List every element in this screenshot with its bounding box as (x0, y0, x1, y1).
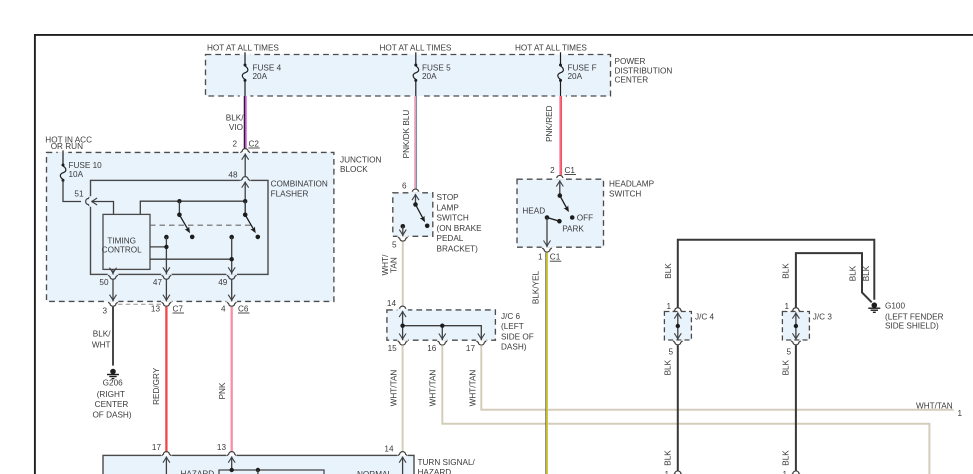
junction connector J/C 4 (664, 302, 714, 356)
svg-text:PARK: PARK (562, 225, 584, 234)
arrow out pin 49 (228, 267, 235, 273)
wire 50 to JB pin 3 (112, 279, 114, 301)
wire BLK J/C3 down (795, 345, 797, 471)
svg-text:2: 2 (232, 139, 237, 148)
connector JB pin 13 C7 arc (162, 302, 172, 306)
svg-text:C7: C7 (173, 304, 184, 313)
label HEADLAMP SWITCH (609, 180, 655, 199)
wire WHT/TAN pin17 right to edge (481, 345, 953, 409)
svg-text:HOT AT ALL TIMES: HOT AT ALL TIMES (207, 44, 279, 53)
edge gaps JB (58, 151, 69, 152)
svg-text:3: 3 (102, 307, 107, 316)
svg-text:BRACKET): BRACKET) (437, 245, 479, 254)
wire contact to pin 5 (402, 226, 404, 236)
svg-text:BLK: BLK (781, 359, 790, 375)
svg-text:4: 4 (221, 304, 226, 313)
wire BLK J/C4 down (677, 345, 679, 471)
svg-text:VIO: VIO (229, 123, 243, 132)
wire 47 to JB pin 13 (165, 279, 167, 301)
svg-text:(ON BRAKE: (ON BRAKE (437, 224, 483, 233)
wire fuse 5 to box edge (415, 80, 417, 96)
wire fuse10 feed stub (62, 150, 64, 165)
svg-text:WHT/TAN: WHT/TAN (429, 370, 438, 407)
wire BLK ground bus 2 (796, 253, 872, 309)
connector C2 arc (240, 149, 250, 153)
wire timing control to switch feed (140, 201, 245, 214)
fuse FUSE 5 20A (413, 63, 451, 82)
label POWER DISTRIBUTION CENTER (615, 57, 673, 85)
connector 50 arc (108, 275, 118, 279)
node junction dot J/C6 a (400, 324, 404, 328)
wire PNK pin4 C6 to turn signal pin 13 (231, 307, 233, 452)
svg-text:BLK: BLK (664, 450, 673, 466)
svg-text:HAZARD: HAZARD (181, 470, 215, 474)
arrow out pin 50 (110, 268, 117, 274)
svg-text:C2: C2 (249, 139, 260, 148)
stop lamp switch box (393, 193, 433, 237)
label STOP LAMP SWITCH (ON BRAKE PEDAL BRACKET) (437, 193, 483, 254)
svg-text:50: 50 (99, 278, 109, 287)
node contact 47 (164, 235, 169, 240)
svg-text:17: 17 (466, 344, 476, 353)
connector pin 15 arc (398, 341, 408, 345)
wire pin48 down to switch feed (244, 182, 246, 215)
label BLK/WHT (92, 330, 111, 350)
svg-text:BLK/: BLK/ (226, 114, 244, 123)
junction connector J/C 3 (782, 302, 832, 356)
node junction dot left switch feed (177, 199, 181, 203)
connector pin 5 arc (398, 237, 408, 241)
svg-text:1: 1 (664, 470, 669, 474)
node junction dot right switch feed (243, 199, 247, 203)
svg-text:BLK/: BLK/ (93, 330, 111, 339)
connector boundary dashed line C7 (118, 303, 161, 305)
svg-text:OF DASH): OF DASH) (92, 410, 131, 419)
ground G100 (868, 302, 880, 312)
svg-text:WHT/TAN: WHT/TAN (469, 370, 478, 407)
svg-text:10A: 10A (69, 170, 84, 179)
svg-text:PNK/RED: PNK/RED (545, 105, 554, 141)
svg-text:RED/GRY: RED/GRY (152, 367, 161, 405)
edge gaps stop lamp (410, 192, 421, 193)
wire BLK/VIO fuse4 to junction block C2 (244, 96, 245, 149)
edge gaps J/C6 (397, 309, 408, 310)
svg-text:HAZARD: HAZARD (418, 468, 452, 474)
wire PNK/DK BLU fuse 5 to stop lamp switch (415, 96, 416, 189)
svg-text:48: 48 (228, 171, 238, 180)
label 4 C6 (221, 304, 250, 313)
pin 1 C1 labels (538, 253, 561, 262)
switch S2 (right) (243, 201, 260, 239)
svg-text:G206: G206 (103, 378, 123, 387)
wire contact 47 to flasher bottom (165, 237, 167, 274)
wire WHT/TAN pin15 to turn signal pin 14 (402, 345, 404, 452)
turn signal / hazard switch box (103, 455, 414, 474)
svg-text:C6: C6 (238, 304, 249, 313)
connector 49 arc (227, 275, 237, 279)
wire BLK ground bus top (678, 240, 875, 309)
label G206 (RIGHT CENTER OF DASH) (92, 378, 131, 419)
label J/C 6 (LEFT SIDE OF DASH) (501, 312, 534, 352)
edge gaps PDC (240, 53, 251, 54)
wire fuse 4 to box edge (244, 80, 246, 96)
wire WHT/TAN pin16 right to bottom right (442, 345, 929, 474)
arrow out pin 47 (163, 267, 170, 273)
wire BLK/WHT to G206 (112, 307, 114, 366)
arrow into pin 14 (399, 312, 406, 318)
svg-text:CENTER: CENTER (95, 400, 129, 409)
label BLK/VIO (226, 114, 244, 133)
connector pin 1 C1 arc (542, 248, 552, 252)
svg-text:47: 47 (153, 278, 163, 287)
wire C2 to flasher pin 48 (244, 154, 246, 176)
arrow into pin 48 (242, 182, 249, 188)
timing control box (103, 214, 150, 269)
edge gaps headlamp (555, 178, 566, 179)
svg-text:STOP: STOP (437, 193, 460, 202)
svg-text:5: 5 (392, 241, 397, 250)
wire 49 to JB pin 4 (231, 279, 233, 301)
connector bottom pin 1 arc (cropped) (791, 471, 801, 474)
pin 14 (384, 444, 407, 474)
wire WHT/TAN stop lamp to J/C 6 pin 14 (402, 242, 404, 306)
arrow into pin 6 (412, 195, 419, 201)
svg-text:15: 15 (388, 344, 398, 353)
svg-text:HOT AT ALL TIMES: HOT AT ALL TIMES (515, 44, 587, 53)
label G100 (LEFT FENDER SIDE SHIELD) (885, 301, 944, 330)
svg-text:17: 17 (152, 443, 162, 452)
svg-text:BLK: BLK (663, 359, 672, 375)
svg-text:6: 6 (402, 181, 407, 190)
switch arm headlamp pole1 (558, 181, 575, 220)
headlamp switch box (517, 179, 604, 247)
svg-text:1: 1 (782, 470, 787, 474)
svg-text:BLK: BLK (782, 450, 791, 466)
wire from dot b down (257, 470, 259, 474)
svg-text:J/C 4: J/C 4 (695, 313, 715, 322)
svg-text:49: 49 (218, 278, 228, 287)
svg-text:WHT/TAN: WHT/TAN (389, 370, 398, 407)
node junction dot 47 (164, 245, 168, 249)
svg-text:SIDE OF: SIDE OF (501, 332, 534, 341)
svg-text:(LEFT: (LEFT (501, 322, 524, 331)
svg-text:BLOCK: BLOCK (340, 165, 368, 174)
svg-text:1: 1 (958, 409, 963, 418)
combination flasher box (91, 180, 269, 274)
wire PNK/RED fuse F to headlamp switch (560, 96, 561, 175)
label COMBINATION FLASHER (271, 179, 328, 198)
switch arm stop lamp (413, 194, 429, 228)
wire timing control to 49 wire (150, 258, 232, 260)
svg-text:16: 16 (427, 344, 437, 353)
wire fuse10 to pin 51 (63, 180, 81, 201)
svg-text:5: 5 (668, 348, 673, 357)
svg-text:POWER: POWER (615, 57, 646, 66)
wire timing control to 47 wire (150, 246, 166, 248)
switch pole2 HEAD contact to PARK (545, 215, 562, 223)
edge gaps turn box (161, 454, 172, 455)
svg-text:14: 14 (384, 444, 394, 453)
junction block box (47, 152, 334, 301)
wires inside J/C6 (403, 311, 482, 340)
connector pin 6 arc (411, 189, 421, 193)
label TIMING CONTROL (102, 236, 142, 254)
wire fuse F feed stub (560, 52, 562, 65)
svg-text:J/C 6: J/C 6 (501, 312, 521, 321)
svg-text:DASH): DASH) (501, 343, 527, 352)
svg-text:20A: 20A (253, 72, 268, 81)
svg-text:1: 1 (666, 302, 671, 311)
svg-text:C1: C1 (550, 253, 561, 262)
pin 2 C1 labels (550, 166, 576, 175)
connector pin 2 C1 arc (555, 175, 565, 179)
connector pin 17 arc (477, 341, 487, 345)
svg-text:OFF: OFF (577, 213, 593, 222)
wire timing control pin 50 (112, 269, 114, 274)
wire pin51 to timing control (91, 202, 113, 215)
power distribution center box (206, 55, 611, 97)
svg-text:OR RUN: OR RUN (51, 142, 83, 151)
wire RED/GRY pin13 C7 to turn signal pin 17 (165, 307, 167, 452)
svg-text:COMBINATION: COMBINATION (271, 179, 328, 188)
svg-text:PNK/DK BLU: PNK/DK BLU (402, 110, 411, 159)
labels 15 16 17 (388, 344, 476, 353)
fuse FUSE 10 10A (60, 161, 102, 182)
wire fuse 4 feed stub (244, 52, 246, 65)
connector J/C6 pin 14 arc (398, 306, 408, 310)
svg-text:NORMAL: NORMAL (357, 470, 392, 474)
svg-text:HEAD: HEAD (522, 207, 545, 216)
label TURN SIGNAL/ HAZARD (418, 458, 476, 474)
node junction dot 49 (230, 257, 234, 261)
svg-text:BLK/YEL: BLK/YEL (531, 270, 540, 304)
wire fuse F to box edge (560, 80, 562, 96)
mechanical linkage dashed line (150, 224, 251, 226)
pin 2 C2 junction block (232, 139, 259, 148)
svg-text:C1: C1 (565, 166, 576, 175)
svg-text:G100: G100 (885, 301, 905, 310)
svg-text:BLK: BLK (664, 263, 673, 279)
svg-text:HEADLAMP: HEADLAMP (609, 180, 655, 189)
arrow into pin 51 (92, 198, 98, 205)
svg-text:(RIGHT: (RIGHT (97, 390, 125, 399)
label JUNCTION BLOCK (340, 155, 381, 174)
switch S1 (left) (177, 201, 194, 239)
label WHT/TAN (two lines) (381, 254, 398, 276)
svg-text:TURN SIGNAL/: TURN SIGNAL/ (418, 458, 476, 467)
edge gaps flasher (240, 179, 251, 180)
svg-text:1: 1 (538, 253, 543, 262)
svg-text:20A: 20A (422, 72, 437, 81)
svg-text:1: 1 (784, 302, 789, 311)
node junction dot J/C6 b (440, 324, 444, 328)
label HOT IN ACC OR RUN (45, 135, 92, 151)
svg-text:CENTER: CENTER (615, 76, 649, 85)
fuse FUSE 4 20A (242, 63, 281, 82)
connector 47 arc (162, 275, 172, 279)
arrow into pin 2 C1 (556, 181, 563, 187)
connector JB pin 3 arc (108, 302, 118, 306)
svg-text:JUNCTION: JUNCTION (340, 155, 381, 164)
svg-text:DISTRIBUTION: DISTRIBUTION (615, 66, 673, 75)
svg-text:TAN: TAN (389, 257, 398, 273)
inner switch box (cropped) (219, 470, 324, 474)
wire fuse 5 feed stub (415, 52, 417, 65)
connector JB pin 4 C6 arc (227, 302, 237, 306)
svg-text:HOT AT ALL TIMES: HOT AT ALL TIMES (380, 44, 452, 53)
arrow into pin 2 (242, 154, 249, 160)
node dot inner a (230, 468, 234, 472)
svg-text:J/C 3: J/C 3 (813, 313, 833, 322)
svg-text:SWITCH: SWITCH (437, 214, 469, 223)
node dot inner b (256, 468, 260, 472)
svg-text:FUSE 10: FUSE 10 (69, 161, 103, 170)
arrows out pins 15 16 17 (399, 334, 406, 340)
svg-text:CONTROL: CONTROL (102, 246, 142, 255)
node contact 49 (229, 235, 234, 240)
svg-text:TIMING: TIMING (107, 236, 136, 245)
pin 17 (152, 443, 171, 474)
svg-text:PNK: PNK (218, 382, 227, 399)
node contact pin 5 (401, 224, 406, 229)
svg-text:SIDE SHIELD): SIDE SHIELD) (885, 322, 939, 331)
svg-text:WHT/TAN: WHT/TAN (916, 401, 953, 410)
svg-text:PEDAL: PEDAL (437, 234, 464, 243)
svg-text:FLASHER: FLASHER (271, 190, 309, 199)
svg-text:5: 5 (786, 348, 791, 357)
label 13 C7 (151, 304, 184, 313)
svg-text:LAMP: LAMP (437, 203, 460, 212)
svg-text:(LEFT FENDER: (LEFT FENDER (885, 312, 944, 321)
connector bottom pin 1 arc (cropped) (673, 471, 683, 474)
wire pole2 to pin 1 C1 (546, 218, 548, 248)
svg-text:BLK: BLK (862, 265, 871, 281)
svg-text:13: 13 (151, 304, 161, 313)
svg-text:BLK: BLK (781, 263, 790, 279)
wire contact 49 to flasher bottom (231, 237, 233, 274)
ground G206 (107, 369, 119, 379)
svg-text:13: 13 (217, 443, 227, 452)
svg-text:2: 2 (550, 166, 555, 175)
pin 13 (217, 443, 237, 470)
pin 51 connector arc (86, 197, 90, 207)
fuse FUSE F 20A (558, 63, 597, 82)
svg-text:SWITCH: SWITCH (609, 190, 641, 199)
connector pin 16 arc (438, 341, 448, 345)
svg-text:14: 14 (387, 299, 397, 308)
svg-text:20A: 20A (568, 72, 583, 81)
wire BLK/YEL headlamp pin1 down (546, 253, 547, 474)
svg-text:WHT: WHT (92, 340, 111, 349)
svg-text:51: 51 (74, 190, 84, 199)
connector 48 arc (240, 177, 250, 181)
junction connector J/C 6 box (387, 310, 496, 340)
svg-text:BLK: BLK (849, 265, 858, 281)
